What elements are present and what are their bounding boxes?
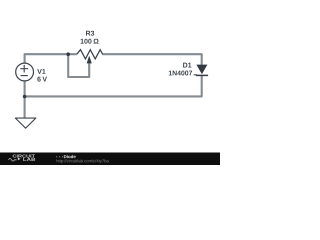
CircuitLab logo word CIRCUIT [13, 155, 35, 158]
wire from V1 bottom through ground node down to ground symbol [24, 81, 26, 118]
ground symbol [15, 118, 35, 128]
watermark url [56, 159, 108, 163]
CircuitLab logo sine wave [9, 159, 17, 162]
watermark title word Diode [64, 155, 76, 158]
wire from diode D1 cathode to bottom ground node [25, 75, 202, 96]
node A junction dot (wiper tap) [66, 52, 70, 56]
V1 minus sign [21, 75, 28, 77]
label D1 [183, 63, 191, 68]
CircuitLab logo bolt triangle [18, 158, 21, 161]
watermark title prefix [56, 156, 63, 158]
V1 plus sign [20, 65, 28, 73]
watermark bar background [0, 153, 220, 166]
label 1N4007 value [169, 71, 192, 76]
label R3 [86, 31, 94, 36]
diode D1 anode triangle [196, 65, 207, 75]
ground node junction dot [23, 95, 27, 99]
label V1 [37, 69, 45, 74]
CircuitLab logo word LAB [23, 158, 35, 161]
diode D1 cathode bar [196, 74, 208, 76]
leader dash between 1N4007 label and diode [194, 74, 198, 76]
wire rheostat wiper loop from node A to wiper arrow [68, 54, 89, 77]
wire from V1 top to resistor R3 left terminal [25, 54, 77, 63]
voltage source V1 circle [16, 63, 34, 81]
resistor R3 zigzag body [77, 50, 103, 59]
label 100 Ω value [81, 39, 99, 44]
wire from resistor R3 right terminal to diode D1 anode [102, 54, 202, 66]
label 6 V value [37, 77, 47, 82]
resistor R3 wiper arrow head [87, 56, 92, 64]
